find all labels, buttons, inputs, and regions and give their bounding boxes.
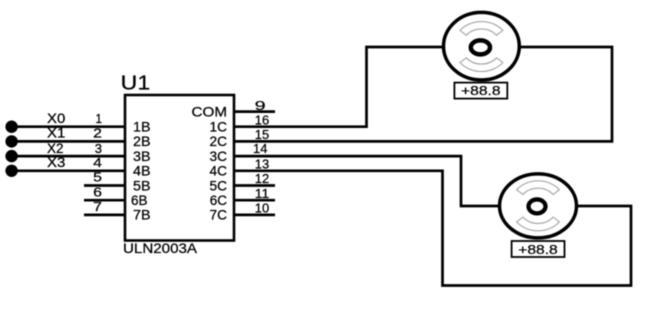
wire X0 to pin 1 [12,125,125,128]
svg-text:2C: 2C [210,134,228,149]
svg-text:X0: X0 [47,111,66,126]
wire X2 to pin 3 [12,155,125,158]
svg-text:9: 9 [255,98,266,113]
motor M1 bottom brush arc [460,58,503,72]
svg-text:5B: 5B [133,178,151,193]
svg-text:4B: 4B [133,164,151,179]
svg-text:+88.8: +88.8 [461,83,501,98]
svg-text:4C: 4C [210,164,228,179]
pin 5 stub wire [84,184,125,187]
pin 12 stub wire [234,184,275,187]
wire net 3C: pin 14 to motor M2 left terminal [234,156,500,206]
svg-text:+88.8: +88.8 [518,242,558,257]
svg-text:4: 4 [93,155,102,170]
svg-text:5: 5 [93,170,102,185]
svg-text:7B: 7B [133,208,151,223]
pin 7 stub wire [84,214,125,217]
motor M1 hub [471,40,490,54]
motor M1 top brush arc [460,22,503,36]
svg-text:U1: U1 [121,73,151,95]
pin 6 stub wire [84,199,125,202]
input node X3 [5,165,17,177]
input node X0 [5,121,17,133]
svg-text:13: 13 [255,156,269,171]
svg-text:5C: 5C [210,178,228,193]
svg-text:X2: X2 [47,141,64,156]
svg-text:2: 2 [93,126,102,141]
motor M2 display box [512,241,565,257]
svg-text:3B: 3B [133,149,151,164]
svg-text:3: 3 [95,141,102,156]
motor M1 body [444,12,520,80]
svg-text:11: 11 [255,186,269,201]
svg-text:1C: 1C [210,120,228,135]
svg-text:14: 14 [253,141,267,156]
svg-text:1: 1 [96,111,103,126]
pin 9 COM stub wire [234,110,275,113]
motor M2 top brush arc [517,181,560,195]
svg-text:7: 7 [93,199,102,214]
svg-text:6B: 6B [131,193,148,208]
wire net 2C: pin 15 to motor M1 right terminal [234,47,612,141]
svg-text:2B: 2B [133,134,151,149]
input node X2 [5,150,17,162]
svg-text:6: 6 [93,184,102,199]
pin 11 stub wire [234,199,275,202]
IC U1 body [125,95,234,241]
svg-text:12: 12 [255,171,269,186]
motor M1 display box [454,83,507,99]
svg-text:16: 16 [255,112,269,127]
motor M2 bottom brush arc [517,217,560,231]
motor M2 body [500,174,577,238]
pin 10 stub wire [234,214,275,217]
wire net 1C: pin 16 to motor M1 left terminal [234,47,444,127]
svg-text:1B: 1B [133,120,151,135]
svg-text:10: 10 [255,201,269,216]
motor M2 hub [529,199,546,213]
input node X1 [5,135,17,147]
wire X1 to pin 2 [12,140,125,143]
svg-text:7C: 7C [210,208,228,223]
svg-text:COM: COM [192,105,228,120]
svg-text:X1: X1 [47,126,65,141]
svg-text:3C: 3C [210,149,228,164]
svg-text:X3: X3 [47,155,66,170]
svg-text:15: 15 [255,127,269,142]
svg-text:6C: 6C [210,193,228,208]
wire X3 to pin 4 [12,169,125,172]
svg-text:ULN2003A: ULN2003A [123,241,198,256]
wire net 4C: pin 13 to motor M2 right terminal [234,171,631,286]
